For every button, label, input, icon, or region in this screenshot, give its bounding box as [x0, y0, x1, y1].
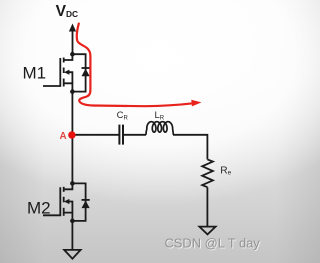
junction dot: M2 source node — [70, 219, 75, 224]
channel segment body — [63, 68, 65, 74]
channel segment drain — [63, 58, 65, 63]
red arrowhead — [191, 100, 201, 107]
transistor M2 — [43, 183, 72, 221]
current path arrow (red) — [77, 24, 193, 107]
drain lead — [64, 54, 73, 60]
gate lead — [43, 58, 60, 86]
wire: M1 source through node A to M2 drain — [71, 92, 73, 184]
channel segment body — [63, 197, 65, 203]
node A dot (red) — [68, 131, 75, 138]
junction dot: M1 source node — [70, 89, 75, 94]
channel segment source — [63, 208, 65, 216]
svg-text:VDC: VDC — [56, 3, 79, 20]
wire: CR to LR — [124, 134, 146, 136]
transistor M1 — [43, 54, 72, 91]
wire: LR to Re corner — [173, 135, 207, 160]
wire: VDC feed with up arrowhead — [69, 24, 76, 55]
body diode D2 — [72, 183, 89, 221]
svg-text:A: A — [60, 131, 67, 142]
ground (M2) — [64, 250, 80, 259]
inductor LR — [146, 122, 173, 135]
svg-text:LR: LR — [155, 110, 165, 121]
channel segment drain — [63, 187, 65, 192]
drain lead — [64, 183, 73, 189]
wire: M2 source to ground — [71, 221, 73, 250]
wire: node A to CR — [72, 134, 118, 136]
cathode bar — [82, 67, 90, 69]
svg-text:M2: M2 — [27, 199, 51, 218]
gate lead — [43, 187, 60, 215]
body diode D1 — [72, 54, 89, 91]
anode triangle — [82, 201, 90, 209]
body arrow — [64, 199, 70, 204]
body connection — [68, 72, 73, 83]
wire: Re to ground — [206, 187, 208, 226]
svg-text:CSDN @L T day: CSDN @L T day — [165, 236, 261, 251]
capacitor CR — [119, 125, 123, 145]
ground (Re) — [199, 227, 215, 235]
body connection — [68, 202, 73, 213]
svg-text:CR: CR — [117, 110, 129, 121]
body arrow — [64, 70, 70, 75]
junction dot: M2 drain node — [70, 181, 75, 186]
anode triangle — [82, 69, 90, 77]
source lead — [64, 213, 73, 221]
junction dot: M1 drain node — [70, 52, 75, 57]
svg-text:M1: M1 — [23, 64, 47, 83]
source lead — [64, 83, 73, 91]
cathode bar — [82, 199, 90, 201]
svg-text:Re: Re — [220, 166, 231, 177]
resistor Re — [202, 159, 213, 187]
channel segment source — [63, 79, 65, 87]
